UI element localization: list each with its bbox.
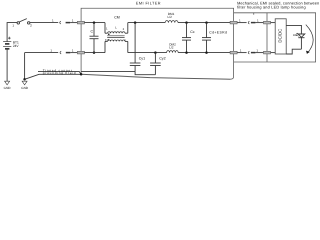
label Cy2 <box>159 57 165 61</box>
wire battery to GND1 <box>6 49 8 81</box>
feedthrough capacitor (lamp wall, return) <box>264 51 271 54</box>
label DM2 L/2 <box>169 43 176 50</box>
wire battery top to switch <box>7 23 17 42</box>
label 1 (J2 top right) <box>257 19 259 23</box>
wire LED cathode return <box>286 49 301 54</box>
label Cx <box>190 30 195 34</box>
wire DC/DC output to LED <box>286 25 301 34</box>
choke core <box>107 36 124 38</box>
EMI filter housing <box>81 8 234 79</box>
svg-text:DC/DC: DC/DC <box>277 29 282 43</box>
feedthrough capacitor (filter left wall, line) <box>77 21 84 24</box>
svg-text:24V: 24V <box>13 44 20 48</box>
pin 4 label <box>124 38 126 42</box>
wire to connector J2 top <box>237 22 246 24</box>
label Tinned copper grounding braid <box>43 68 77 75</box>
capacitor Cy2 <box>150 53 161 75</box>
label 1 (J2 top left) <box>239 19 241 23</box>
svg-text:Cy2: Cy2 <box>159 57 165 61</box>
capacitor Cy1 <box>130 23 141 72</box>
inductor DM2 L/2 <box>167 51 179 53</box>
label C <box>91 30 94 34</box>
connector J2 top (pin) <box>251 22 256 24</box>
svg-text:GND: GND <box>21 86 29 90</box>
label L <box>115 26 117 30</box>
svg-text:C: C <box>91 30 94 34</box>
svg-text:EMI FILTER: EMI FILTER <box>136 2 161 6</box>
wire Cy1 return to chassis <box>81 71 135 73</box>
label Cd+ESRd <box>209 30 227 34</box>
pin 3 label <box>105 38 107 42</box>
label 1 (J1 bottom left pin) <box>50 49 52 53</box>
svg-text:Cd+ESRd: Cd+ESRd <box>209 30 227 34</box>
label Cy1 <box>139 57 145 61</box>
label BT1 24V <box>13 41 20 48</box>
wire top inside filter <box>84 22 105 24</box>
label 1 switch pin <box>12 23 32 27</box>
wire DM1 to wall <box>178 22 230 24</box>
label Mechanical, EMI sealed, connection between filter housing and LED lamp housing <box>237 2 319 10</box>
wire DM2 to wall <box>178 52 230 54</box>
switch SW1 <box>17 19 30 24</box>
ground GND2 <box>22 81 27 85</box>
node Cx bottom <box>185 51 188 54</box>
feedthrough capacitor (lamp wall, line) <box>264 21 271 24</box>
wire grounding braid (double line) <box>38 72 81 75</box>
svg-text:L/2: L/2 <box>169 46 174 50</box>
connector J1 top (socket) <box>60 21 61 24</box>
node Cy1 top tap <box>134 21 137 24</box>
LED D1 <box>298 34 305 49</box>
node chassis braid dot <box>80 73 83 76</box>
svg-text:CM: CM <box>114 16 120 20</box>
pin 2 label <box>123 27 125 31</box>
polarity dot winding top <box>108 34 110 35</box>
connector J1 top (pin) <box>66 22 71 24</box>
converter U1 DC/DC <box>275 19 286 54</box>
polarity dot winding bottom <box>108 39 110 40</box>
pin 1 label <box>106 27 108 31</box>
wire bottom inside filter <box>84 52 105 54</box>
feedthrough capacitor (filter left wall, return) <box>77 51 84 54</box>
battery BT1 <box>3 37 11 49</box>
feedthrough capacitor (filter right wall, return) <box>230 51 237 54</box>
svg-text:Cy1: Cy1 <box>139 57 145 61</box>
label 1 (J2 bottom left) <box>240 49 242 53</box>
connector J1 bottom (socket) <box>60 51 61 54</box>
label DM1 L/2 <box>168 12 175 19</box>
capacitor Cx <box>182 23 191 53</box>
label 1 (J2 bottom right) <box>256 49 258 53</box>
node C top <box>93 21 96 24</box>
LED emission arrows <box>296 33 299 36</box>
label 1 (J1 left pin) <box>52 19 54 23</box>
leader tick (mechanical connection) <box>253 13 255 15</box>
connector J2 top (socket) <box>248 21 249 24</box>
wire to connector J2 bottom <box>237 52 246 54</box>
inductor DM1 L/2 <box>165 21 178 23</box>
wire switch to connector J1 top <box>30 22 58 24</box>
label EMI FILTER <box>136 2 161 6</box>
choke CM winding bottom L3-4 <box>105 40 128 53</box>
node Cd top <box>205 21 208 24</box>
node braid/GND2 junction <box>23 78 26 81</box>
connector J1 bottom (pin) <box>66 52 71 54</box>
arrow current loop <box>306 25 313 54</box>
svg-text:Cx: Cx <box>190 30 195 34</box>
wire lamp wall to DC/DC <box>271 22 276 24</box>
connector J2 bottom (pin) <box>251 52 256 54</box>
capacitor Cd+ESRd <box>202 23 211 53</box>
label D1 <box>293 33 297 37</box>
wire bottom choke to DM2 <box>128 52 167 54</box>
choke CM winding top L1-2 <box>105 23 128 34</box>
label 1 (J1 right pin) <box>72 19 74 23</box>
svg-text:GND: GND <box>4 86 12 90</box>
node Cd bottom <box>205 51 208 54</box>
LED lamp housing <box>234 13 316 62</box>
capacitor C <box>90 23 99 53</box>
svg-text:grounding braid: grounding braid <box>43 71 77 75</box>
wire top choke to DM1 <box>128 22 165 24</box>
ground GND1 <box>5 81 10 85</box>
svg-text:L/2: L/2 <box>168 15 173 19</box>
node Cx top <box>185 21 188 24</box>
wire bottom-left return <box>25 52 59 54</box>
feedthrough capacitor (filter right wall, line) <box>230 21 237 24</box>
label 1 (J1 bottom right pin) <box>72 49 74 53</box>
wire Cy2 return to chassis <box>135 72 155 75</box>
connector J2 bottom (socket) <box>248 51 249 54</box>
node Cy2 tap <box>154 51 157 54</box>
node C bottom <box>93 51 96 54</box>
label CM <box>114 16 120 20</box>
svg-text:filter housing and LED lamp ho: filter housing and LED lamp housing <box>237 5 306 9</box>
